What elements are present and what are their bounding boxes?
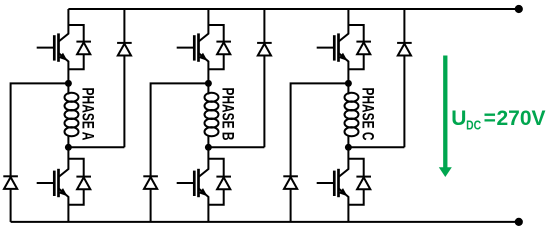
svg-text:U: U	[451, 107, 466, 130]
wire phase B winding-top node to lower freewheel diode	[151, 83, 209, 176]
wire lower freewheel diode to DC- rail	[10, 189, 12, 222]
diode upper freewheel phase B	[257, 43, 272, 56]
diode anti-parallel with top IGBT phase C	[348, 25, 371, 69]
svg-text:PHASE C: PHASE C	[359, 88, 378, 141]
inductor phase C winding	[345, 83, 359, 147]
wire lower freewheel diode to DC- rail	[150, 189, 152, 222]
transistor bottom IGBT phase A	[37, 147, 69, 222]
diode upper freewheel phase C	[397, 43, 412, 56]
transistor top IGBT phase A	[37, 9, 69, 83]
transistor bottom IGBT phase B	[177, 147, 209, 222]
transistor bottom IGBT phase C	[317, 147, 349, 222]
label UDC = 270V	[451, 107, 545, 133]
inductor phase B winding	[205, 83, 219, 147]
node phase A winding top	[65, 80, 72, 87]
wire upper freewheel diode to winding-bottom node	[123, 56, 125, 148]
diode lower freewheel phase B	[143, 176, 158, 189]
svg-text:PHASE A: PHASE A	[79, 88, 98, 141]
diode upper freewheel phase A	[117, 43, 132, 56]
node phase B winding top	[205, 80, 212, 87]
diode lower freewheel phase A	[3, 176, 18, 189]
wire lower freewheel diode to DC- rail	[290, 189, 292, 222]
node phase C winding top	[345, 80, 352, 87]
wire DC+ rail to upper freewheel diode	[123, 9, 125, 43]
node DC+ terminal	[515, 5, 523, 13]
diode anti-parallel with top IGBT phase A	[68, 25, 91, 69]
svg-text:DC: DC	[466, 118, 481, 133]
diode anti-parallel with bottom IGBT phase B	[208, 159, 231, 205]
wire upper freewheel diode to winding-bottom node	[263, 56, 265, 148]
wire phase A winding-top node to lower freewheel diode	[11, 83, 69, 176]
diode anti-parallel with bottom IGBT phase A	[68, 159, 91, 205]
wire phase C winding-bottom node to upper freewheel diode	[348, 146, 404, 148]
svg-text:270V: 270V	[497, 107, 546, 130]
diode anti-parallel with bottom IGBT phase C	[348, 159, 371, 205]
wire DC- bottom rail	[11, 221, 519, 223]
svg-text:=: =	[484, 107, 496, 130]
wire phase A winding-bottom node to upper freewheel diode	[68, 146, 124, 148]
arrow DC-link voltage direction	[439, 56, 452, 178]
svg-text:PHASE B: PHASE B	[219, 87, 238, 140]
inductor phase A winding	[65, 83, 79, 147]
wire phase B winding-bottom node to upper freewheel diode	[208, 146, 264, 148]
wire DC+ rail to upper freewheel diode	[263, 9, 265, 43]
wire DC+ rail to upper freewheel diode	[403, 9, 405, 43]
wire upper freewheel diode to winding-bottom node	[403, 56, 405, 148]
wire phase C winding-top node to lower freewheel diode	[291, 83, 349, 176]
diode anti-parallel with top IGBT phase B	[208, 25, 231, 69]
node phase B winding bottom	[205, 144, 212, 151]
transistor top IGBT phase C	[317, 9, 349, 83]
node phase C winding bottom	[345, 144, 352, 151]
transistor top IGBT phase B	[177, 9, 209, 83]
diode lower freewheel phase C	[283, 176, 298, 189]
node DC- terminal	[515, 218, 523, 226]
node phase A winding bottom	[65, 144, 72, 151]
wire DC+ top rail	[68, 8, 518, 10]
